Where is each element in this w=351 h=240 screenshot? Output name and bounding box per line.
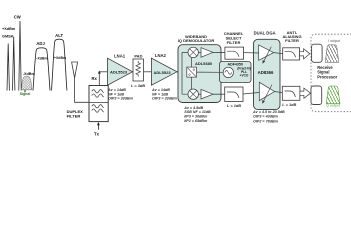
LO oscillator symbol [223,67,233,77]
wire antenna to duplexer [75,78,89,102]
svg-text:DUAL DGA: DUAL DGA [254,31,276,36]
LNA2 amplifier ADL5523 [151,58,177,85]
VGA Q [259,82,274,100]
block arrow Q [300,88,311,98]
blocker spike GMSK 2 [13,37,15,91]
svg-text:Rx: Rx [92,76,98,81]
svg-text:ADJ: ADJ [36,41,45,46]
demodulator block ADL5380 [178,45,221,103]
antenna [72,62,78,78]
block arrow I [300,49,310,59]
wire Rx to LNA1 [99,71,107,73]
wire LNA2 to demod [177,71,182,74]
LO wire [197,71,224,73]
anti-aliasing filter Q [282,86,300,100]
svg-text:OIP3 = 33dBm: OIP3 = 33dBm [152,97,178,101]
svg-text:Av = 4.5 to 20.5dB: Av = 4.5 to 20.5dB [252,110,285,114]
svg-text:OIP3 = 43dBm: OIP3 = 43dBm [253,115,279,119]
svg-text:+XdBm: +XdBm [2,27,16,31]
svg-text:SSB NF = 11dB: SSB NF = 11dB [184,110,211,114]
mixer I [188,47,198,57]
mixer Q [188,89,198,99]
svg-text:IIP2 = 65dBm: IIP2 = 65dBm [184,119,208,123]
anti-aliasing filter I [283,48,300,60]
wanted signal dome [21,76,32,90]
svg-text:ALT: ALT [55,33,63,38]
svg-text:FILTER: FILTER [227,40,241,45]
duplex filter wave symbols bottom [92,105,104,108]
wire demod Q out [213,93,225,95]
svg-text:Signal: Signal [20,92,31,96]
svg-text:PAD: PAD [134,53,142,58]
wire filter Q to DGA [243,93,259,95]
svg-text:GMSK: GMSK [2,35,14,39]
splitter wires to mixers [191,58,193,89]
svg-text:Tx: Tx [94,132,100,137]
quadrature phase splitter [187,67,197,77]
svg-text:I output: I output [328,39,340,43]
svg-text:-XdBm: -XdBm [36,57,47,61]
PAD attenuator box [133,59,144,81]
svg-text:L = 1dB: L = 1dB [227,103,241,108]
ADJ blocker dome [33,48,50,91]
Q spectrum hatched [326,86,340,104]
wire demod I out [213,51,225,53]
wire LNA1 to PAD [132,71,135,73]
PAD resistor zigzag [136,61,140,77]
svg-text:ADL5523: ADL5523 [153,70,171,75]
svg-text:LNA1: LNA1 [114,54,126,59]
PLL block ADF4350 [220,62,252,83]
VGA I [259,45,274,60]
Rx node [98,72,100,85]
amp Q [201,89,213,99]
svg-text:IQ DEMODULATOR: IQ DEMODULATOR [178,38,215,43]
svg-text:L = 1dB: L = 1dB [282,102,296,107]
receive signal processor dashed box [311,34,351,112]
svg-text:Av = 4.5dB: Av = 4.5dB [183,106,203,110]
svg-text:ADL5523: ADL5523 [110,70,128,75]
svg-text:Q output: Q output [326,103,340,107]
wire filter I to DGA [244,52,259,54]
svg-text:AD8366: AD8366 [258,70,274,75]
I spectrum hatched [325,45,339,63]
RF input split wire [182,52,188,94]
duplex filter box [89,86,108,122]
DGA block AD8366 [254,39,281,109]
LNA1 amplifier ADL5523 [108,58,133,85]
svg-text:FILTER: FILTER [67,113,81,118]
svg-text:IIP3 = 30dBm: IIP3 = 30dBm [184,115,208,119]
svg-text:FILTER: FILTER [285,38,299,43]
svg-text:+VCO: +VCO [240,73,249,77]
wire DGA Q out [275,92,283,93]
svg-text:OIP2 = 78dBm: OIP2 = 78dBm [253,119,279,123]
ADC Q box [311,86,322,105]
svg-text:OIP3 = 33dBm: OIP3 = 33dBm [108,97,134,101]
amp I [201,48,213,58]
channel select filter I [225,47,244,59]
ALT blocker dome [52,39,67,90]
svg-text:Processor: Processor [317,75,337,80]
ADC I box [312,44,323,62]
CW blocker spike [19,21,21,91]
svg-text:ADL5380: ADL5380 [195,61,213,66]
wanted signal arrow [24,91,26,92]
duplex filter wave symbols top [92,90,104,93]
wire DGA I out [274,53,283,54]
blocker spike GMSK 1 [7,44,9,91]
Tx arrow [97,124,99,129]
channel select filter Q [225,87,243,102]
svg-text:LNA2: LNA2 [155,53,167,58]
svg-text:L = 3dB: L = 3dB [131,83,145,88]
svg-text:CW: CW [14,15,21,20]
wire PAD to LNA2 [144,71,152,73]
svg-text:+XdBm: +XdBm [54,56,66,60]
